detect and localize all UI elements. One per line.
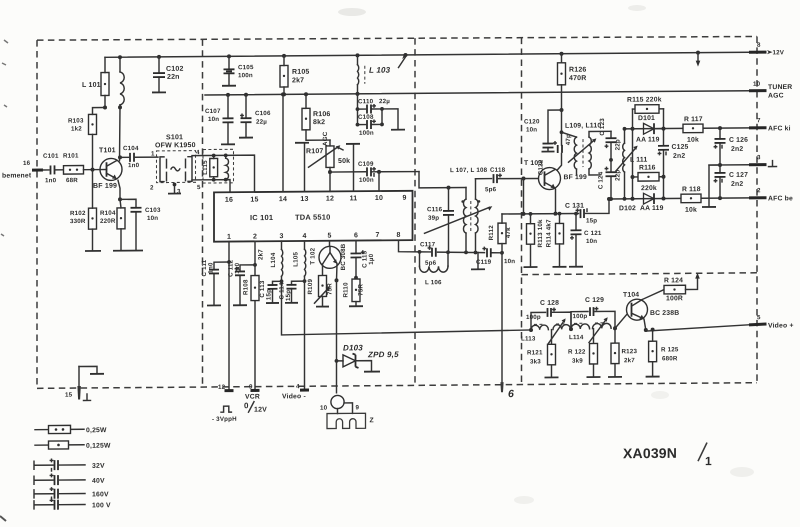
svg-text:R109: R109 <box>307 279 314 295</box>
svg-text:AFC be: AFC be <box>768 195 793 202</box>
svg-text:220R: 220R <box>100 218 116 225</box>
svg-text:10n: 10n <box>526 126 537 133</box>
svg-text:R 117: R 117 <box>684 116 703 123</box>
svg-text:0,125W: 0,125W <box>86 443 111 450</box>
svg-text:AA 119: AA 119 <box>640 205 664 212</box>
svg-text:L105: L105 <box>293 251 300 266</box>
svg-text:8k2: 8k2 <box>313 119 325 126</box>
svg-text:L109, L110: L109, L110 <box>565 122 601 129</box>
svg-text:1n0: 1n0 <box>208 262 215 274</box>
svg-text:C108: C108 <box>358 114 374 121</box>
svg-text:22µ: 22µ <box>379 98 390 105</box>
svg-text:5p6: 5p6 <box>425 260 437 267</box>
svg-text:R114 4k7: R114 4k7 <box>546 219 553 248</box>
svg-text:R 118: R 118 <box>682 186 701 193</box>
svg-text:C103: C103 <box>145 207 161 214</box>
svg-text:C104: C104 <box>123 145 139 152</box>
svg-text:1: 1 <box>227 234 231 241</box>
svg-text:C117: C117 <box>420 241 436 248</box>
svg-text:2n2: 2n2 <box>673 153 685 160</box>
svg-text:470R: 470R <box>569 75 587 82</box>
svg-text:AFC ki: AFC ki <box>768 125 791 132</box>
svg-text:2n2: 2n2 <box>731 146 743 153</box>
svg-text:IC 101: IC 101 <box>250 213 273 222</box>
svg-text:8: 8 <box>757 42 761 49</box>
svg-text:R101: R101 <box>63 153 79 160</box>
svg-text:16: 16 <box>225 197 233 204</box>
svg-text:ZPD 9,5: ZPD 9,5 <box>367 350 399 359</box>
svg-text:L 107, L 108: L 107, L 108 <box>450 167 488 174</box>
svg-text:10: 10 <box>375 195 383 202</box>
svg-text:L114: L114 <box>569 334 584 341</box>
svg-text:R126: R126 <box>569 67 587 74</box>
svg-text:BF 199: BF 199 <box>564 174 588 181</box>
svg-text:C 124: C 124 <box>598 171 605 189</box>
svg-text:100 V: 100 V <box>92 502 111 509</box>
svg-text:6: 6 <box>354 232 358 239</box>
svg-text:2: 2 <box>253 234 257 241</box>
svg-text:R 125: R 125 <box>661 346 679 353</box>
svg-text:R102: R102 <box>70 210 86 217</box>
svg-text:1µ0: 1µ0 <box>368 253 375 264</box>
svg-text:BC 308B: BC 308B <box>340 243 347 270</box>
svg-text:C122: C122 <box>538 159 545 175</box>
svg-text:Video +: Video + <box>768 322 794 329</box>
svg-text:C106: C106 <box>255 110 271 117</box>
svg-text:R110: R110 <box>343 282 350 298</box>
svg-text:2k7: 2k7 <box>624 357 635 364</box>
svg-text:R112: R112 <box>488 225 495 241</box>
svg-text:15: 15 <box>65 392 73 399</box>
svg-text:3: 3 <box>279 233 283 240</box>
svg-text:C101: C101 <box>43 153 59 160</box>
svg-text:R115 220k: R115 220k <box>627 96 662 103</box>
svg-text:S101: S101 <box>166 134 183 141</box>
svg-text:16: 16 <box>23 160 31 167</box>
svg-text:T104: T104 <box>623 292 639 299</box>
svg-text:14: 14 <box>279 196 287 203</box>
svg-text:11: 11 <box>350 195 358 202</box>
svg-text:C109: C109 <box>358 161 374 168</box>
svg-text:75R: 75R <box>327 283 334 295</box>
svg-text:4: 4 <box>296 383 300 390</box>
svg-text:L104: L104 <box>270 252 277 267</box>
svg-text:R108: R108 <box>243 279 250 295</box>
svg-text:0,25W: 0,25W <box>86 427 107 434</box>
svg-text:C 128: C 128 <box>540 300 559 307</box>
svg-text:9: 9 <box>249 384 253 391</box>
svg-text:8: 8 <box>396 232 400 239</box>
svg-text:3: 3 <box>757 154 761 161</box>
svg-text:Z: Z <box>370 417 374 424</box>
svg-text:10n: 10n <box>147 215 158 222</box>
svg-text:1: 1 <box>151 150 155 157</box>
svg-text:BF 199: BF 199 <box>93 183 117 190</box>
svg-text:10n: 10n <box>504 258 515 265</box>
svg-text:2k7: 2k7 <box>292 77 304 84</box>
svg-text:TDA 5510: TDA 5510 <box>295 213 331 222</box>
svg-text:T 102: T 102 <box>310 247 317 264</box>
svg-text:32V: 32V <box>92 463 105 470</box>
svg-text:XA039N: XA039N <box>623 445 677 461</box>
svg-text:R107: R107 <box>306 148 324 155</box>
svg-text:1k2: 1k2 <box>71 125 82 132</box>
svg-text:15p: 15p <box>586 217 597 224</box>
svg-text:7: 7 <box>375 232 379 239</box>
svg-text:L113: L113 <box>521 335 536 342</box>
svg-text:9: 9 <box>356 404 360 411</box>
svg-text:C 126: C 126 <box>729 137 748 144</box>
svg-text:220k: 220k <box>641 185 657 192</box>
svg-text:C120: C120 <box>524 118 540 125</box>
svg-text:D102: D102 <box>619 205 636 212</box>
svg-text:22p: 22p <box>615 139 622 150</box>
svg-text:2: 2 <box>757 187 761 194</box>
svg-text:C116: C116 <box>427 206 443 213</box>
svg-text:100n: 100n <box>359 130 374 137</box>
svg-text:12V: 12V <box>254 407 267 414</box>
svg-text:15p: 15p <box>285 290 292 301</box>
svg-text:C110: C110 <box>358 98 374 105</box>
svg-text:R116: R116 <box>639 164 656 171</box>
svg-text:C 129: C 129 <box>585 297 604 304</box>
svg-text:6: 6 <box>508 388 514 400</box>
svg-text:22n: 22n <box>167 74 180 81</box>
svg-text:bemenet: bemenet <box>2 172 32 179</box>
svg-text:L 101: L 101 <box>82 82 101 89</box>
svg-text:100R: 100R <box>666 295 683 302</box>
svg-text:C118: C118 <box>490 167 506 174</box>
svg-text:D101: D101 <box>638 115 655 122</box>
svg-text:C102: C102 <box>166 66 184 73</box>
svg-text:C 121: C 121 <box>584 230 602 237</box>
svg-text:5: 5 <box>327 233 331 240</box>
svg-text:100n: 100n <box>359 177 374 184</box>
svg-text:47k: 47k <box>505 227 512 238</box>
svg-text:AGC: AGC <box>768 92 784 99</box>
svg-text:7: 7 <box>757 117 761 124</box>
svg-text:Video -: Video - <box>282 393 306 400</box>
svg-text:L 103: L 103 <box>369 66 391 75</box>
svg-text:C107: C107 <box>205 108 221 115</box>
svg-text:R113 10k: R113 10k <box>537 219 544 248</box>
svg-text:22µ: 22µ <box>256 119 267 126</box>
svg-text:1µ0: 1µ0 <box>234 262 241 273</box>
svg-text:5: 5 <box>197 184 201 191</box>
svg-text:R123: R123 <box>622 348 638 355</box>
svg-text:40V: 40V <box>92 478 105 485</box>
svg-text:12: 12 <box>326 196 334 203</box>
svg-text:AGC: AGC <box>322 131 329 146</box>
svg-text:100n: 100n <box>238 72 253 79</box>
svg-text:C 123: C 123 <box>599 118 606 136</box>
svg-text:13: 13 <box>300 196 308 203</box>
svg-text:L115: L115 <box>202 160 209 175</box>
svg-text:C105: C105 <box>238 64 254 71</box>
svg-text:VCR: VCR <box>245 394 260 401</box>
svg-text:5: 5 <box>757 314 761 321</box>
svg-text:3k3: 3k3 <box>530 358 541 365</box>
svg-text:10k: 10k <box>687 137 699 144</box>
svg-text:2: 2 <box>150 184 154 191</box>
svg-text:0: 0 <box>244 401 249 410</box>
svg-text:1n0: 1n0 <box>45 177 57 184</box>
svg-text:100p: 100p <box>573 313 588 320</box>
svg-text:D103: D103 <box>343 343 363 352</box>
svg-text:75R: 75R <box>358 283 365 295</box>
svg-text:1n0: 1n0 <box>128 162 140 169</box>
svg-text:5p6: 5p6 <box>485 186 497 193</box>
svg-text:L 106: L 106 <box>425 279 442 286</box>
svg-text:R 124: R 124 <box>664 277 683 284</box>
svg-text:TUNER: TUNER <box>768 84 792 91</box>
svg-text:10n: 10n <box>586 238 597 245</box>
svg-text:160V: 160V <box>92 491 109 498</box>
svg-text:2k7: 2k7 <box>258 249 265 260</box>
svg-text:330R: 330R <box>70 218 86 225</box>
svg-text:680R: 680R <box>662 355 678 362</box>
svg-text:100p: 100p <box>526 314 541 321</box>
svg-text:50k: 50k <box>338 158 350 165</box>
svg-text:3k9: 3k9 <box>572 358 583 365</box>
svg-text:10: 10 <box>753 81 761 88</box>
svg-text:T101: T101 <box>99 147 116 154</box>
svg-text:R104: R104 <box>100 210 116 217</box>
svg-text:9: 9 <box>402 195 406 202</box>
svg-text:C125: C125 <box>672 144 689 151</box>
svg-text:C 127: C 127 <box>729 172 748 179</box>
svg-text:10: 10 <box>320 405 328 412</box>
svg-text:R103: R103 <box>68 117 84 124</box>
svg-text:4: 4 <box>302 233 306 240</box>
svg-text:- 3VppH: - 3VppH <box>212 416 237 423</box>
svg-text:OFW K1950: OFW K1950 <box>155 142 196 149</box>
svg-text:12V: 12V <box>773 49 785 56</box>
svg-text:10k: 10k <box>685 207 697 214</box>
svg-text:68R: 68R <box>66 177 78 184</box>
svg-text:15: 15 <box>250 197 258 204</box>
svg-text:39p: 39p <box>428 215 439 222</box>
svg-text:R105: R105 <box>292 69 310 76</box>
svg-text:12: 12 <box>218 384 226 391</box>
svg-text:2n2: 2n2 <box>731 181 743 188</box>
svg-text:1: 1 <box>705 454 712 468</box>
svg-text:15p: 15p <box>266 289 273 300</box>
svg-text:BC 238B: BC 238B <box>650 310 679 317</box>
svg-text:R106: R106 <box>313 111 331 118</box>
svg-text:C 131: C 131 <box>565 203 584 210</box>
svg-text:R 122: R 122 <box>568 349 586 356</box>
svg-text:10n: 10n <box>208 116 219 123</box>
svg-text:R121: R121 <box>527 349 543 356</box>
svg-text:AA 119: AA 119 <box>636 136 660 143</box>
